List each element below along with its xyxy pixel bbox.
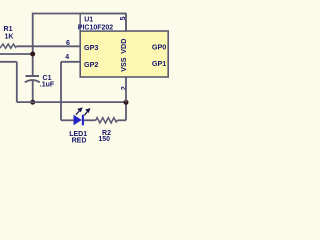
- LED LED1 emission arrow 1: [76, 108, 82, 115]
- node junction VSS rail / pin 2 / R2: [124, 100, 129, 105]
- IC U1 PIC10F202 yellow body: [80, 31, 168, 77]
- svg-text:GP1: GP1: [152, 59, 166, 68]
- capacitor C1 bottom curved plate: [25, 80, 40, 82]
- LED LED1 cathode bar: [82, 115, 84, 126]
- svg-text:.1uF: .1uF: [40, 82, 55, 89]
- wire: right vertical up to VSS rail: [125, 102, 127, 120]
- wire: LED anode lead: [61, 119, 74, 121]
- wire: R2 lead to right vertical: [117, 119, 126, 121]
- svg-text:PIC10F202: PIC10F202: [78, 25, 114, 32]
- svg-text:U1: U1: [84, 17, 93, 24]
- resistor R1 zigzag: [0, 44, 17, 48]
- wire: left VDD stub: [0, 53, 33, 55]
- svg-text:RED: RED: [72, 137, 87, 144]
- wire: C1 bottom lead: [32, 81, 34, 103]
- node junction C1/VSS rail: [30, 100, 35, 105]
- svg-text:GP3: GP3: [84, 43, 98, 52]
- U1 label box: [80, 14, 126, 32]
- LED LED1 emission arrow 2: [84, 109, 89, 115]
- svg-text:R1: R1: [4, 26, 13, 33]
- svg-text:VDD: VDD: [119, 39, 128, 54]
- wire: left VSS vertical: [16, 62, 18, 102]
- wire: left VSS stub: [0, 61, 17, 63]
- capacitor C1 top plate: [26, 75, 40, 77]
- wire: GP2 vertical to LED: [60, 62, 62, 121]
- wire: top VDD rail: [33, 13, 126, 15]
- wire: VSS bottom rail: [17, 101, 126, 103]
- wire: pin 2 vertical: [125, 77, 127, 102]
- wire: pin 5 vertical drop: [125, 14, 127, 32]
- wire: R1 to pin 6 GP3: [17, 45, 81, 47]
- svg-text:1K: 1K: [5, 34, 14, 41]
- resistor R2 zigzag: [96, 118, 118, 123]
- svg-text:VSS: VSS: [119, 57, 128, 72]
- wire: left VDD vertical: [32, 13, 34, 76]
- wire: pin 4 GP2 stub: [61, 61, 80, 63]
- wire: LED cathode to R2: [84, 119, 96, 121]
- svg-text:GP2: GP2: [84, 60, 98, 69]
- node junction VDD: [30, 52, 35, 57]
- svg-text:150: 150: [98, 136, 110, 143]
- svg-text:GP0: GP0: [152, 43, 166, 52]
- svg-text:4: 4: [65, 54, 69, 61]
- LED LED1 triangle: [74, 115, 82, 126]
